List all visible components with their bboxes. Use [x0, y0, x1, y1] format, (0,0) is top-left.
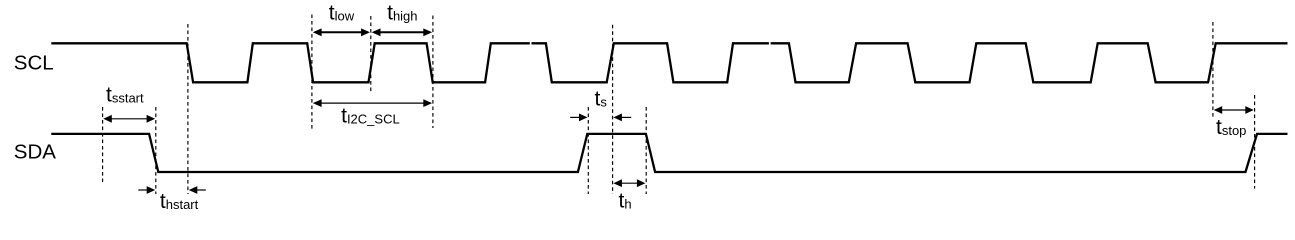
- guide line at SDA start of t_sstart: [102, 107, 104, 183]
- arrow t_hstart right (points left into guide): [189, 186, 206, 194]
- guide line at SDA rising edge (t_s start): [587, 107, 589, 194]
- arrow t_stop dimension: [1214, 106, 1254, 114]
- arrow t_high dimension: [372, 28, 432, 36]
- arrow t_hstart left (points right into guide): [138, 186, 155, 194]
- guide line at SCL last rising edge (t_stop start): [1212, 22, 1214, 118]
- arrow t_low dimension: [313, 28, 370, 36]
- guide line at SDA last rising edge (t_stop end): [1254, 95, 1256, 189]
- svg-text:SCL: SCL: [14, 51, 54, 74]
- guide line at SDA falling edge (t_h end): [645, 107, 647, 194]
- guide line at SCL first falling edge (t_hstart end): [187, 24, 189, 194]
- arrow t_s right (points left into guide): [613, 114, 631, 122]
- guide line at SCL rising edge (t_s end / t_h start): [612, 25, 614, 194]
- arrow t_sstart dimension: [103, 115, 155, 123]
- svg-text:SDA: SDA: [14, 141, 56, 164]
- wire SDA waveform: [51, 134, 1287, 172]
- arrow t_s left (points right into guide): [570, 114, 587, 122]
- arrow t_h dimension: [613, 179, 645, 187]
- guide line at SDA falling edge (t_sstart end / t_hstart start): [155, 107, 157, 194]
- guide line at t_high end: [432, 16, 434, 129]
- arrow t_I2C_SCL dimension: [313, 99, 432, 107]
- gaps in SCL high line: [530, 42, 771, 46]
- guide line at t_low end / t_high start: [370, 16, 372, 93]
- dashed guide lines: [103, 15, 1255, 195]
- guide line at t_low start: [311, 15, 313, 130]
- wire SCL waveform: [51, 43, 1287, 82]
